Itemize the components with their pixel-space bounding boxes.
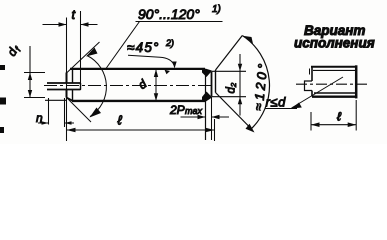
slot inner end — [80, 83, 82, 90]
n dimension extension right — [64, 98, 66, 127]
right chamfer dark wedge bottom — [202, 92, 212, 102]
curved leader of 45 label — [128, 55, 174, 65]
angle arc arrowhead top — [86, 48, 98, 57]
svg-text:ℓ: ℓ — [118, 113, 123, 128]
variant right face — [355, 65, 358, 98]
t arrow left — [59, 22, 67, 26]
svg-text:1): 1) — [212, 4, 221, 15]
screw body bottom edge — [72, 100, 206, 102]
df dimension line — [29, 46, 31, 98]
l dimension line (main) — [67, 129, 215, 131]
runout arrowhead — [292, 103, 302, 109]
bottom apex arrowhead — [246, 124, 255, 133]
svg-text:r≤d: r≤d — [266, 95, 287, 110]
t dimension line — [43, 24, 98, 26]
svg-text:t: t — [72, 7, 77, 22]
2P arrow left — [198, 115, 206, 119]
svg-text:≈45°: ≈45° — [127, 40, 160, 55]
svg-text:ℓ: ℓ — [337, 110, 342, 124]
variant l extension right — [355, 100, 357, 131]
chamfer boundary line — [72, 69, 74, 101]
2P dimension line — [181, 116, 230, 118]
arrowhead of 45 leader — [172, 62, 176, 69]
svg-text:исполнения: исполнения — [294, 36, 375, 51]
variant thread crest line top — [313, 69, 356, 71]
scan speck left edge 2 — [0, 127, 4, 133]
l arrow left — [67, 128, 76, 133]
d2 arrow bottom — [238, 97, 242, 105]
2P extension right (face extended) — [211, 97, 213, 140]
angle arc arrowhead bottom — [90, 108, 102, 118]
cone side line bottom — [67, 98, 92, 123]
svg-text:max: max — [185, 106, 203, 116]
right end chamfer bottom diagonal — [205, 97, 212, 101]
variant top-left notch — [309, 69, 311, 75]
thin link under slot — [45, 99, 67, 101]
scan speck left edge 3 — [0, 65, 5, 70]
variant slot box — [305, 81, 313, 91]
leader line of 90..120 label — [106, 22, 140, 69]
variant body top edge — [311, 66, 357, 68]
screw body top edge — [70, 68, 205, 70]
cone side line top (chamfer extended) — [67, 42, 100, 73]
variant thread crest line bottom — [314, 92, 356, 94]
variant l arrow left — [311, 122, 320, 127]
d dimension line — [155, 69, 157, 101]
df dimension tick bottom — [24, 97, 45, 99]
label df — [4, 42, 23, 60]
right end face — [211, 71, 213, 96]
variant left face — [311, 67, 313, 97]
d2 extension top — [212, 70, 246, 72]
variant body bottom edge — [312, 96, 357, 98]
df dimension tick top — [24, 72, 45, 74]
underline of 90..120 label — [136, 21, 223, 23]
variant l dimension line — [311, 124, 356, 126]
df arrow lower — [28, 90, 32, 98]
cone angle arc — [87, 56, 106, 117]
svg-text:2P: 2P — [169, 103, 185, 117]
svg-text:90°...120°: 90°...120° — [138, 6, 200, 22]
n dimension extension left — [48, 98, 50, 125]
l right extension — [214, 119, 216, 141]
d arrow bottom — [154, 93, 158, 101]
lens spherical arc — [242, 36, 269, 131]
lens detail: upper left cone line — [216, 36, 243, 71]
n dimension line — [38, 122, 74, 124]
lens lower cone line — [216, 93, 251, 128]
underline of r<=d — [265, 108, 298, 110]
slot shown rotated (protruding box) — [47, 83, 81, 90]
right chamfer dark wedge top — [202, 69, 212, 78]
d2 extension bottom — [212, 96, 246, 98]
df arrow upper — [28, 73, 32, 81]
svg-text:n: n — [36, 111, 43, 125]
lens end face — [215, 70, 217, 93]
variant thread runout diagonal — [292, 77, 344, 108]
t dimension extension left (master line down) — [66, 18, 68, 142]
apex arrowhead — [243, 36, 253, 44]
d arrow top — [154, 69, 158, 77]
2P arrow right — [212, 115, 220, 119]
small speck arrow under top edge — [165, 70, 171, 74]
right end chamfer top diagonal — [205, 69, 212, 71]
l arrow right — [206, 128, 215, 133]
centerline main view — [44, 85, 214, 87]
variant centerline — [296, 83, 369, 85]
bottom chamfer edge — [67, 98, 74, 102]
svg-text:d: d — [136, 77, 150, 92]
left face of screw — [66, 73, 68, 98]
variant l arrow right — [348, 122, 357, 127]
2P extension left (chamfer line extended) — [205, 69, 207, 140]
svg-text:d₂: d₂ — [226, 82, 238, 93]
svg-text:2): 2) — [165, 38, 174, 48]
n arrow right — [65, 121, 72, 125]
d2 dimension line — [239, 54, 241, 116]
d2 arrow top — [238, 64, 242, 72]
t dimension extension right — [80, 11, 82, 90]
variant l extension left — [310, 112, 312, 131]
t arrow right — [81, 22, 89, 26]
scan speck left edge 1 — [0, 98, 6, 105]
n arrow left — [42, 121, 49, 125]
